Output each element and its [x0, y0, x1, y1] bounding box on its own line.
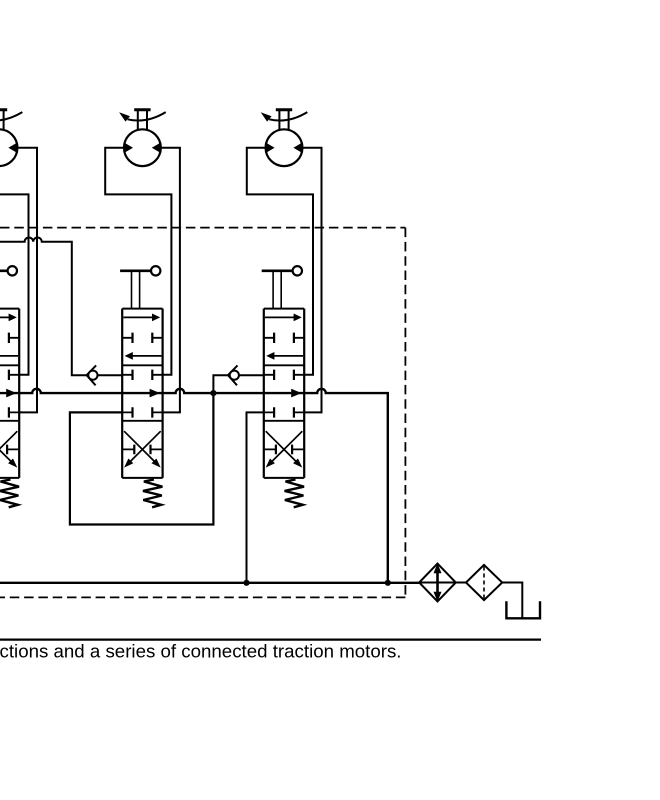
wire M2 left port to valve V2 — [105, 148, 171, 375]
drain loop valve V2 lower port to junction — [70, 395, 214, 525]
tank return rail — [0, 582, 419, 584]
directional control valve V2 — [120, 266, 163, 507]
wire M2 right port to valve V2 — [161, 148, 180, 413]
wire M1 right port to valve V1 — [17, 148, 37, 413]
directional control valve V3 — [262, 266, 305, 507]
traction motor M2 — [119, 110, 166, 166]
wire M3 left port to valve V3 — [247, 148, 313, 375]
heat exchanger (cooler) HE1 — [419, 563, 456, 601]
wire CV2 to valve V3 left port — [239, 374, 264, 376]
directional control valve V1 (cut at left edge) — [0, 266, 19, 507]
enclosure dashed boundary — [0, 228, 405, 598]
junction node rail/main line — [385, 580, 391, 586]
wire filter outlet to reservoir — [502, 583, 522, 618]
caption separator rule — [0, 638, 541, 640]
traction motor M3 — [261, 110, 308, 166]
svg-text:ctions and a series of connect: ctions and a series of connected tractio… — [0, 642, 402, 662]
drain wire valve V3 lower port to tank rail — [247, 412, 264, 582]
traction motor M1 (cut at left edge) — [0, 110, 22, 166]
reservoir (tank) T1 — [506, 601, 540, 618]
junction node rail/V3 drain — [243, 580, 249, 586]
filter F1 — [456, 565, 502, 600]
supply line to check valve CV1 (with crossover hops) — [0, 238, 87, 376]
wire CV1 to valve V2 left port — [98, 374, 123, 376]
check valve CV2 — [228, 365, 239, 385]
main pressure line (with crossover hops) — [0, 389, 388, 583]
junction node on main line — [210, 390, 216, 396]
wire M1 left port to valve V1 — [0, 148, 29, 375]
wire M3 right port to valve V3 — [302, 148, 321, 413]
branch junction to check valve CV2 — [213, 375, 228, 393]
check valve CV1 — [87, 365, 98, 385]
